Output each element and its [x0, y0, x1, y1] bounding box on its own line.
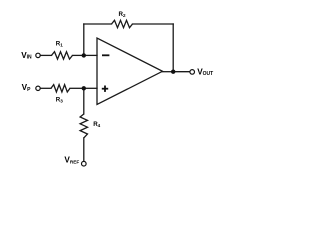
resistor R1	[52, 52, 73, 59]
svg-text:R4: R4	[93, 121, 100, 128]
wire feedback right vertical	[172, 24, 174, 72]
wire Vin terminal to R1	[40, 54, 51, 56]
resistor R3	[51, 85, 70, 92]
resistor R2	[112, 20, 133, 27]
node B junction dot	[82, 86, 86, 90]
Vin terminal circle	[36, 53, 40, 57]
wire op-amp output to node C	[163, 71, 174, 73]
wire node A to op-amp inverting input	[84, 54, 97, 56]
Vp terminal circle	[36, 86, 40, 90]
wire feedback top right	[133, 23, 174, 25]
svg-text:VOUT: VOUT	[197, 67, 213, 77]
Vout terminal circle	[190, 70, 195, 75]
wire feedback left vertical	[83, 24, 85, 55]
svg-text:VIN: VIN	[21, 51, 32, 61]
wire node B down to R4	[83, 88, 85, 114]
wire node C to Vout terminal	[173, 71, 190, 73]
wire node B to op-amp non-inverting input	[84, 87, 97, 89]
resistor R4	[80, 114, 87, 138]
svg-text:R3: R3	[56, 96, 63, 103]
op-amp minus input symbol	[102, 54, 109, 56]
node C junction dot	[171, 70, 175, 74]
wire R3 to node B	[70, 87, 84, 89]
node A junction dot	[82, 53, 86, 57]
svg-text:R1: R1	[56, 41, 63, 48]
svg-text:VP: VP	[22, 83, 31, 93]
wire Vp terminal to R3	[40, 87, 51, 89]
wire feedback top left	[84, 23, 112, 25]
svg-text:R2: R2	[119, 11, 126, 18]
op-amp plus input symbol	[102, 86, 108, 92]
op-amp U1	[97, 38, 163, 105]
wire R4 to Vref terminal	[83, 138, 85, 162]
Vref terminal circle	[82, 161, 87, 166]
wire R1 to node A	[73, 54, 84, 56]
svg-text:VREF: VREF	[64, 156, 79, 165]
